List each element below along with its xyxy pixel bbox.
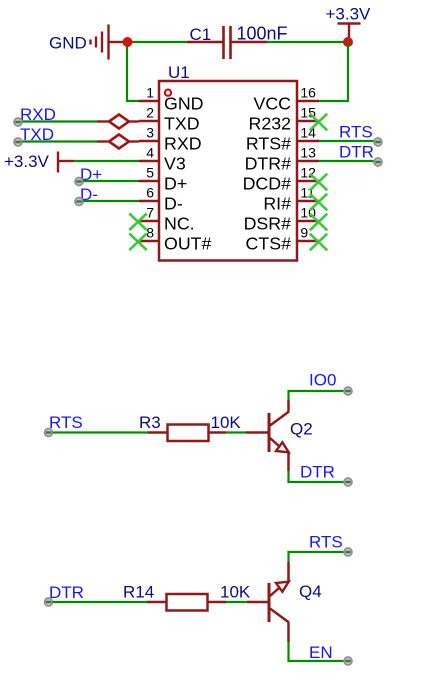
transistor Q2 (246, 400, 289, 471)
wire D+ (83, 180, 139, 182)
svg-text:Q4: Q4 (299, 582, 322, 601)
wire DTR (319, 160, 374, 162)
svg-text:U1: U1 (168, 63, 190, 82)
no-connect X pin 8 (129, 234, 146, 251)
wire RTS (319, 140, 374, 142)
wire DTR to R14 (53, 601, 147, 603)
wire +3.3V to pin 4 (74, 160, 139, 162)
svg-text:CTS#: CTS# (246, 234, 292, 254)
svg-text:6: 6 (146, 185, 154, 201)
pin 13 stub (298, 160, 320, 162)
wire C1 to +3.3V junction (267, 41, 348, 43)
svg-text:OUT#: OUT# (164, 234, 212, 254)
pin 15 stub (298, 120, 320, 122)
svg-text:DTR#: DTR# (245, 154, 292, 174)
svg-text:R232: R232 (248, 114, 291, 134)
pin 5 stub (139, 180, 159, 182)
resistor R14 (147, 594, 226, 611)
port dot DTR (374, 158, 382, 166)
transistor Q4 (247, 562, 289, 642)
no-connect X pin 9 (310, 234, 327, 251)
svg-text:1: 1 (146, 85, 154, 101)
pin 7 stub (139, 220, 159, 222)
power symbol +3.3V top (338, 24, 361, 39)
port dot DTR bottom (344, 478, 352, 486)
wire R14 to Q4 base (226, 601, 247, 603)
svg-text:8: 8 (146, 225, 154, 241)
diamond marker RXD (97, 115, 139, 129)
port dot DTR input (45, 598, 53, 606)
svg-text:DTR: DTR (49, 583, 84, 602)
capacitor C1 (188, 26, 268, 59)
pin 12 stub (298, 180, 320, 182)
svg-text:4: 4 (146, 145, 154, 161)
port dot IO0 (344, 387, 352, 395)
port dot RTS top (344, 548, 352, 556)
no-connect X pin 15 (310, 114, 327, 131)
svg-text:NC.: NC. (164, 214, 195, 234)
wire +3.3V to VCC pin 16 (319, 42, 348, 101)
port dot D+ (75, 178, 83, 186)
svg-text:GND: GND (49, 34, 87, 53)
svg-text:V3: V3 (164, 154, 186, 174)
svg-text:DTR: DTR (300, 463, 335, 482)
svg-text:EN: EN (309, 643, 333, 662)
svg-text:DSR#: DSR# (244, 214, 292, 234)
wire D- (83, 200, 139, 202)
svg-text:TXD: TXD (164, 114, 200, 134)
no-connect X pin 12 (310, 174, 327, 191)
pin 14 stub (298, 140, 320, 142)
wire Q2 collector to IO0 (289, 391, 344, 400)
svg-text:16: 16 (300, 85, 316, 101)
pin 2 stub (139, 120, 159, 122)
svg-text:DTR: DTR (339, 143, 374, 162)
wire RTS to R3 (53, 431, 148, 433)
port dot D- (75, 198, 83, 206)
wire R3 to Q2 base (226, 431, 246, 433)
svg-text:13: 13 (300, 145, 316, 161)
pin 16 stub (298, 100, 320, 102)
svg-text:RTS: RTS (49, 413, 83, 432)
svg-text:D-: D- (164, 194, 183, 214)
wire TXD (22, 140, 97, 142)
svg-text:RTS: RTS (339, 123, 373, 142)
svg-text:R14: R14 (123, 583, 154, 602)
svg-text:RTS#: RTS# (246, 134, 291, 154)
port dot RXD (14, 118, 22, 126)
IC U1 body (159, 81, 297, 261)
pin 4 stub (139, 160, 159, 162)
port dot EN (344, 657, 352, 665)
svg-text:RXD: RXD (164, 134, 202, 154)
wire junction down to pin 1 (127, 42, 139, 101)
svg-text:Q2: Q2 (290, 420, 313, 439)
svg-text:VCC: VCC (253, 94, 291, 114)
junction dot left (123, 37, 133, 47)
svg-text:R3: R3 (139, 413, 161, 432)
svg-text:2: 2 (146, 105, 154, 121)
pin 10 stub (298, 220, 320, 222)
svg-text:RTS: RTS (309, 533, 343, 552)
diamond marker TXD (97, 135, 139, 149)
svg-text:3: 3 (146, 125, 154, 141)
resistor R3 (148, 425, 226, 442)
no-connect X pin 10 (310, 214, 327, 231)
svg-text:GND: GND (164, 94, 204, 114)
svg-text:C1: C1 (190, 25, 212, 44)
svg-text:DCD#: DCD# (243, 174, 292, 194)
pin 9 stub (298, 240, 320, 242)
port dot RTS (374, 138, 382, 146)
svg-text:+3.3V: +3.3V (326, 5, 372, 24)
no-connect X pin 11 (310, 194, 327, 211)
wire RXD (22, 120, 97, 122)
ground symbol (91, 25, 125, 60)
svg-text:9: 9 (300, 225, 308, 241)
svg-text:RI#: RI# (263, 194, 291, 214)
wire GND to C1 (127, 41, 188, 43)
junction dot right (343, 37, 353, 47)
wire Q2 emitter to DTR (289, 471, 344, 482)
svg-text:100nF: 100nF (237, 24, 288, 44)
wire Q4 collector to EN (289, 642, 344, 661)
port dot TXD (14, 138, 22, 146)
pin 11 stub (298, 200, 320, 202)
power symbol +3.3V left (58, 152, 74, 173)
svg-text:10K: 10K (220, 583, 251, 602)
pin 6 stub (139, 200, 159, 202)
pin 8 stub (139, 240, 159, 242)
svg-text:+3.3V: +3.3V (4, 152, 50, 171)
wire Q4 emitter to RTS (289, 552, 344, 562)
port dot RTS input (45, 429, 53, 437)
svg-text:IO0: IO0 (309, 371, 336, 390)
pin 3 stub (139, 140, 159, 142)
svg-text:7: 7 (146, 205, 154, 221)
svg-text:10K: 10K (211, 413, 242, 432)
pin 1 stub (139, 100, 159, 102)
no-connect X pin 7 (129, 214, 146, 231)
svg-text:D+: D+ (164, 174, 187, 194)
svg-text:5: 5 (146, 165, 154, 181)
pin 1 indicator circle (165, 90, 171, 96)
